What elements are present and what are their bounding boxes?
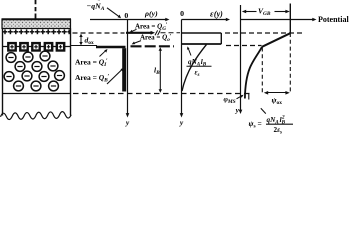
interface reference line to plot (71, 45, 97, 47)
Q_B' leader arrow (107, 68, 124, 84)
svg-text:Potential: Potential (318, 15, 349, 24)
band-bending curve (245, 47, 262, 99)
l_B dimension arrow (159, 47, 162, 93)
gate-level dashed line (right section) (225, 32, 302, 34)
semiconductor body borders (3, 29, 71, 116)
gate potential vertical line (289, 4, 291, 34)
small leader near psi_s dashed vertical (261, 108, 266, 113)
svg-text:ρ(y): ρ(y) (144, 9, 158, 18)
inversion charge Q_I' bar (96, 46, 126, 49)
gate terminal wire (35, 0, 37, 20)
torn wavy bottom edge (1, 112, 72, 120)
gate potential dashed vertical (289, 33, 291, 93)
E plot y-axis (180, 20, 184, 118)
effective interface charge Q_o' dashed bar (131, 45, 175, 47)
svg-text:ε(y): ε(y) (210, 8, 223, 18)
gate-level reference dashed line (73, 32, 125, 34)
depletion field slope (182, 44, 207, 91)
inversion-layer electrons (boxed charges) (8, 43, 64, 50)
bulk potential tick (248, 94, 250, 100)
V_GB dimension arrows (242, 10, 290, 14)
svg-text:y: y (179, 118, 184, 127)
depletion region edge line (structure) (2, 93, 71, 95)
potential axis (horizontal) (241, 18, 317, 21)
gate electrode (stippled) (2, 19, 72, 28)
svg-text:0: 0 (124, 11, 128, 20)
depletion-depth reference dashed line (global) (73, 93, 251, 95)
rho axis (horizontal) (90, 18, 170, 21)
psi_ox dimension arrows (264, 91, 290, 95)
d_ox dimension arrow (79, 34, 82, 46)
interface-level dashed line (right section) (226, 45, 262, 47)
Q_G' leader arrow (129, 29, 136, 32)
rho plot y-axis (126, 20, 130, 118)
oxide potential segment (262, 33, 290, 47)
svg-text:0: 0 (180, 9, 184, 18)
Q_I' leader arrow (100, 49, 108, 57)
oxide field rectangle (182, 33, 222, 44)
gate charge sheet Q_G' bar (126, 30, 180, 35)
svg-text:y: y (125, 118, 130, 127)
ionized acceptors (circled minus) (4, 51, 64, 91)
gate positive charge sheet (+ row) (3, 29, 71, 34)
potential plot y-axis (239, 5, 243, 114)
E-field axis (horizontal) (182, 18, 231, 21)
phi_MS leader arrow (237, 95, 244, 99)
psi_s dashed vertical (261, 48, 263, 93)
Q_o' leader arrow (132, 41, 141, 45)
E_s leader arrow (187, 46, 191, 55)
svg-text:y: y (235, 106, 240, 115)
depletion charge Q_B' bar (122, 48, 126, 91)
-qN_A leader arrow (107, 8, 121, 18)
oxide-semiconductor interface line (structure) (2, 46, 71, 48)
